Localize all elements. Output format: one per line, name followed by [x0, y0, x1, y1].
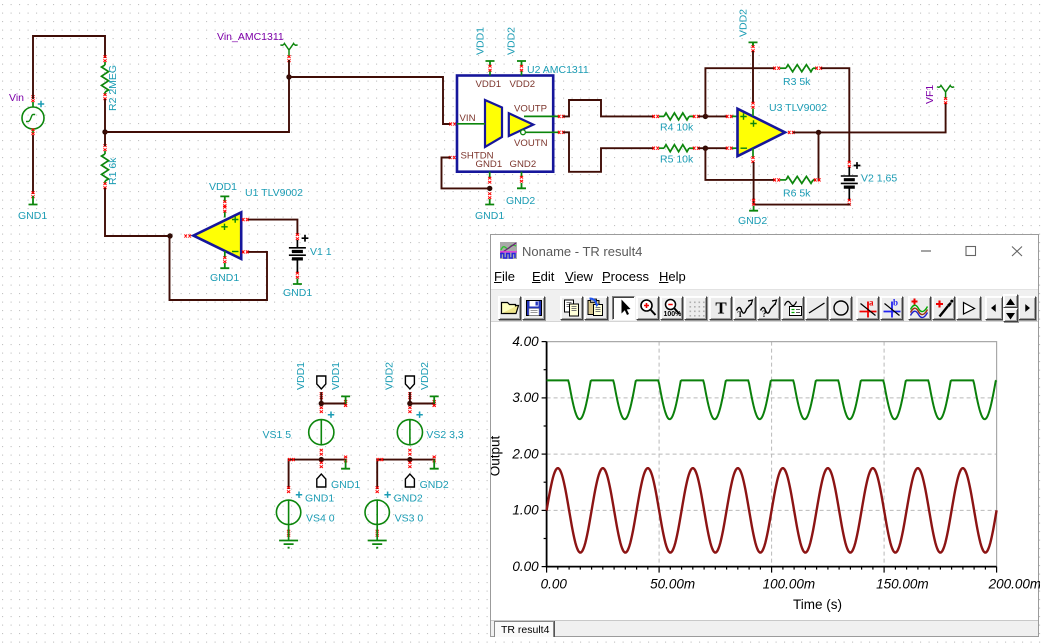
- plot axes: [547, 342, 997, 567]
- pin mark VS3 left: [377, 458, 384, 461]
- wire node to jumper VDD2: [410, 403, 434, 405]
- wire Vin bottom to GND1: [32, 136, 34, 193]
- wire probe to node B: [288, 61, 290, 75]
- pin mark V1 top: [296, 233, 299, 240]
- svg-text:VDD1: VDD1: [209, 181, 237, 193]
- pin mark U2 VDD1: [488, 65, 491, 72]
- pin mark above flag GND2: [408, 461, 411, 468]
- window icon: [500, 242, 517, 264]
- pin mark Vin bottom: [31, 128, 34, 135]
- U1 VDD1 jumper: [220, 196, 229, 202]
- pin mark under flag VDD2: [408, 392, 411, 399]
- svg-text:VDD1: VDD1: [330, 362, 342, 390]
- wire node to VS4: [289, 460, 322, 488]
- svg-text:VS1 5: VS1 5: [263, 429, 292, 441]
- jumper VDD2: [430, 396, 439, 403]
- svg-text:R4 10k: R4 10k: [660, 122, 694, 134]
- node D junction below U2: [487, 186, 492, 191]
- svg-text:VDD2: VDD2: [384, 362, 396, 390]
- svg-text:GND2: GND2: [420, 479, 449, 491]
- node B junction: [286, 74, 291, 79]
- pin mark Vin top: [31, 95, 34, 102]
- voltage source VS2: [397, 420, 422, 445]
- svg-text:Output: Output: [491, 435, 503, 476]
- pin mark U3 GND pin: [751, 156, 754, 163]
- wire VS3 to ground: [376, 525, 378, 541]
- wire node F to U3 minus: [705, 147, 726, 149]
- svg-text:GND2: GND2: [510, 159, 537, 170]
- wire flag to node VDD2: [409, 393, 411, 404]
- ground symbol VS3: [368, 541, 387, 548]
- pin mark VS2 bottom: [408, 449, 411, 456]
- pin mark VS3 top: [376, 486, 379, 493]
- node C junction at U1 output: [167, 233, 172, 238]
- plot gridlines: [547, 509, 997, 511]
- wire node to VS3: [377, 460, 410, 488]
- svg-text:GND1: GND1: [475, 210, 504, 222]
- battery V2 lead bottom: [848, 188, 850, 202]
- pin mark R2 top: [103, 55, 106, 62]
- node F junction: [703, 146, 708, 151]
- pin mark R3 right: [815, 67, 822, 70]
- minimize button: [916, 241, 976, 261]
- pin mark jumper VDD2: [433, 400, 436, 407]
- wire node E to U3 plus: [705, 115, 726, 117]
- pin mark U3 +in: [726, 115, 733, 118]
- pin mark U2 SHTDN: [449, 156, 456, 159]
- pin mark under flag VDD1: [320, 392, 323, 399]
- IC U2 AMC1311 box: [457, 76, 553, 172]
- svg-text:1.00: 1.00: [512, 503, 539, 518]
- wire node to jumper VDD1: [321, 403, 345, 405]
- svg-text:V2 1,65: V2 1,65: [861, 173, 897, 185]
- wire R4 to node E: [699, 115, 705, 117]
- probe Vin_AMC1311: [280, 44, 297, 57]
- plus sign V2: [854, 162, 861, 169]
- wire R1 to U1 node: [104, 135, 106, 145]
- battery V2: [841, 176, 858, 183]
- pin flag GND1: [317, 474, 326, 487]
- pin mark jumper GND1: [344, 456, 347, 463]
- jumper VDD1: [341, 396, 350, 403]
- pin mark above flag GND1: [320, 461, 323, 468]
- pin mark U2 VDD2: [520, 65, 523, 72]
- U1 plus input mark: [232, 216, 238, 222]
- voltage generator Vin: [22, 107, 44, 129]
- svg-text:50.00m: 50.00m: [650, 577, 695, 592]
- pin mark U1 -in: [242, 250, 249, 253]
- svg-text:VDD2: VDD2: [510, 79, 536, 90]
- U3 plus stub: [732, 115, 738, 117]
- svg-text:Vin: Vin: [9, 92, 24, 104]
- svg-text:3.00: 3.00: [512, 390, 539, 405]
- svg-text:GND1: GND1: [476, 159, 503, 170]
- wire output to R6 vertical: [818, 132, 820, 180]
- pin mark V2 top: [848, 161, 851, 168]
- pin mark U2 VIN: [449, 122, 456, 125]
- U3 plus input mark: [740, 113, 746, 119]
- svg-text:VS4 0: VS4 0: [306, 513, 335, 525]
- pin mark V1 bottom: [296, 272, 299, 279]
- svg-text:VDD1: VDD1: [476, 79, 502, 90]
- pin mark VF1: [944, 97, 947, 104]
- U2 VDD2 jumper: [517, 61, 526, 66]
- U2 GND1 jumper: [485, 199, 494, 205]
- svg-text:GND1: GND1: [331, 479, 360, 491]
- voltage source VS4: [276, 500, 300, 524]
- node junction VDD1: [319, 401, 324, 406]
- U2 VOUTN pin wire: [526, 131, 559, 133]
- svg-text:V1 1: V1 1: [310, 246, 332, 258]
- plus sign VS1: [328, 412, 334, 418]
- pin mark R5 left: [652, 147, 659, 150]
- U1 GND1 jumper: [220, 263, 229, 268]
- U3 GND stub: [752, 149, 754, 158]
- svg-text:VDD1: VDD1: [295, 362, 307, 390]
- pin mark VS4 bottom: [287, 530, 290, 537]
- pin mark R2 bottom: [103, 93, 106, 100]
- svg-text:4.00: 4.00: [512, 334, 539, 349]
- U3 offset plus mark: [750, 120, 756, 126]
- wire VOUTP to R4: [564, 100, 653, 116]
- pin mark U3 -in: [726, 147, 733, 150]
- svg-text:VS3 0: VS3 0: [395, 513, 424, 525]
- pin mark R1 bottom: [103, 182, 106, 189]
- wire node E up to R3: [705, 68, 774, 116]
- svg-text:VDD2: VDD2: [738, 9, 750, 37]
- svg-text:R3 5k: R3 5k: [783, 76, 811, 88]
- svg-text:200.00m: 200.00m: [988, 577, 1040, 592]
- svg-text:Vin_AMC1311: Vin_AMC1311: [217, 31, 284, 43]
- svg-text:U1 TLV9002: U1 TLV9002: [245, 187, 303, 199]
- svg-text:R2 2MEG: R2 2MEG: [107, 65, 119, 111]
- pin mark U2 GND2: [520, 176, 523, 183]
- plus sign Vin: [38, 101, 44, 107]
- svg-text:150.00m: 150.00m: [876, 577, 929, 592]
- pin mark R6 right: [814, 178, 821, 181]
- wire U1 -in feedback: [170, 238, 268, 300]
- node E junction: [703, 114, 708, 119]
- svg-text:GND2: GND2: [738, 215, 767, 227]
- pin mark U3 VDD pin: [751, 102, 754, 109]
- pin mark probe Vin_AMC1311: [287, 55, 290, 62]
- plus sign VS2: [416, 412, 422, 418]
- pin mark GND2 junction: [752, 199, 755, 206]
- svg-text:VIN: VIN: [460, 113, 476, 124]
- U2 VDD1 jumper: [486, 61, 495, 66]
- wire node A to riser: [105, 79, 289, 132]
- U3 VDD stub: [752, 109, 754, 117]
- voltage source VS3: [365, 500, 389, 524]
- svg-text:GND1: GND1: [305, 493, 334, 505]
- GND2 jumper under U3: [749, 206, 758, 211]
- wire Vin top to R2: [33, 36, 105, 98]
- wire node to jumper GND1: [321, 459, 345, 461]
- svg-text:100.00m: 100.00m: [763, 577, 816, 592]
- U1 offset plus mark: [221, 224, 227, 230]
- svg-text:VF1: VF1: [924, 85, 936, 104]
- pin mark VS2 top: [408, 406, 411, 413]
- pin mark R1 top: [103, 144, 106, 151]
- resistor R1: [104, 151, 106, 154]
- battery V1: [289, 248, 306, 255]
- pin mark R4 left: [652, 115, 659, 118]
- U2 GND1 stub: [489, 172, 491, 178]
- pin mark U1 +in: [242, 218, 249, 221]
- svg-text:0.00: 0.00: [512, 559, 539, 574]
- svg-text:GND2: GND2: [506, 195, 535, 207]
- wire R2 to node A: [104, 100, 106, 132]
- pin mark R4 right: [693, 115, 700, 118]
- wire U3 output to VF1: [794, 104, 946, 132]
- wire U3 VDD2: [752, 52, 754, 102]
- wire flag to node VDD1: [320, 393, 322, 404]
- wire VOUTN to R5: [564, 132, 653, 172]
- U2 inverting bubble: [521, 130, 526, 135]
- U3 minus stub: [732, 147, 738, 149]
- svg-text:0.00: 0.00: [541, 577, 568, 592]
- node junction VDD2: [407, 401, 412, 406]
- red waveform Output: [547, 468, 997, 552]
- wire R5 to node F: [699, 147, 705, 149]
- pin mark R5 right: [693, 147, 700, 150]
- battery V1 lead bottom: [296, 259, 298, 273]
- pin mark VS3 bottom: [376, 530, 379, 537]
- svg-text:R6 5k: R6 5k: [783, 188, 811, 200]
- node F to R6 wire: [705, 148, 774, 180]
- svg-text:VDD1: VDD1: [475, 27, 487, 55]
- wire node to jumper GND2: [410, 459, 434, 461]
- U3 VDD2 jumper: [749, 42, 758, 47]
- wire U2 SHTDN to GND1 node: [442, 158, 489, 189]
- U2 GND2 jumper: [517, 183, 526, 188]
- pin mark below node D: [488, 192, 491, 199]
- pin mark U1 output: [184, 234, 191, 237]
- close button: [1007, 241, 1027, 261]
- V1 GND1 jumper: [293, 279, 302, 285]
- svg-text:GND1: GND1: [283, 287, 312, 299]
- jumper GND1: [341, 460, 350, 469]
- pin mark VS4 top: [287, 486, 290, 493]
- pin mark jumper GND2: [433, 456, 436, 463]
- plus sign VS3: [384, 492, 390, 498]
- maximize button: [961, 241, 981, 261]
- wire V2 bottom to GND2: [754, 204, 850, 206]
- resistor R6: [780, 179, 786, 181]
- ground symbol VS4: [279, 541, 298, 548]
- svg-text:U2 AMC1311: U2 AMC1311: [527, 64, 589, 76]
- node junction lower GND1: [319, 457, 324, 462]
- wire U3 GND down: [753, 163, 755, 205]
- svg-text:VS2 3,3: VS2 3,3: [426, 429, 464, 441]
- wire node B to U2 VIN: [289, 77, 450, 124]
- U3 minus input mark: [741, 147, 748, 149]
- U1 minus input mark: [232, 251, 239, 253]
- U1 GND1 stub: [224, 251, 226, 258]
- svg-text:GND2: GND2: [394, 493, 423, 505]
- svg-text:VOUTP: VOUTP: [514, 104, 547, 115]
- ground jumper GND1 at Vin: [29, 198, 38, 205]
- resistor R2: [104, 62, 106, 65]
- plus sign VS4: [296, 492, 302, 498]
- plus sign V1: [302, 235, 309, 242]
- wire R3 to V2 plus: [822, 68, 849, 161]
- pin mark VS4 left: [288, 458, 295, 461]
- TR result window: [490, 234, 1039, 637]
- svg-text:VDD2: VDD2: [419, 362, 431, 390]
- battery V2 lead top: [848, 167, 850, 176]
- pin mark R6 left: [773, 178, 780, 181]
- svg-text:R5 10k: R5 10k: [660, 154, 694, 166]
- pin mark U2 GND1: [488, 177, 491, 184]
- U2 output stage triangle: [509, 113, 534, 136]
- svg-text:2.00: 2.00: [511, 446, 539, 461]
- voltage source VS1: [309, 420, 334, 445]
- svg-text:VOUTN: VOUTN: [514, 138, 548, 149]
- pin mark VS1 bottom: [320, 449, 323, 456]
- resistor R4: [659, 115, 664, 117]
- svg-text:VDD2: VDD2: [506, 27, 518, 55]
- pin marks U1 VDD1: [223, 200, 226, 207]
- pin mark jumper VDD1: [344, 400, 347, 407]
- resistor R3: [780, 67, 786, 69]
- pin mark VOUTP: [558, 115, 565, 118]
- U2 VOUTP pin wire: [524, 115, 559, 117]
- pin flag VDD2 top: [405, 376, 414, 389]
- op-amp U3 triangle: [738, 109, 786, 157]
- U2 input stage trapezoid: [485, 100, 502, 147]
- pin mark R3 left: [773, 67, 780, 70]
- wire U1 +in to V1: [249, 220, 297, 234]
- pin mark U3 VDD2 jumper: [751, 45, 754, 52]
- svg-text:Time (s): Time (s): [793, 597, 842, 612]
- pin mark Vin gnd: [31, 191, 34, 198]
- probe VF1: [937, 86, 954, 99]
- pin mark VOUTN: [558, 131, 565, 134]
- node A junction: [102, 129, 107, 134]
- U2 VIN pin wire: [457, 123, 485, 125]
- pin mark V2 bottom: [848, 199, 851, 206]
- battery V1 lead top: [296, 240, 298, 248]
- node junction lower GND2: [407, 457, 412, 462]
- wire VS4 to ground: [288, 525, 290, 541]
- pin flag VDD1 top: [317, 376, 326, 389]
- U2 GND2 stub: [521, 172, 523, 177]
- svg-text:R1 6k: R1 6k: [107, 157, 119, 185]
- pin mark U3 output: [788, 131, 795, 134]
- jumper GND2: [430, 460, 439, 469]
- resistor R5: [659, 147, 664, 149]
- svg-text:GND1: GND1: [18, 210, 47, 222]
- pin mark U1 GND1: [223, 256, 226, 263]
- pin mark VS1 top: [320, 406, 323, 413]
- svg-text:U3 TLV9002: U3 TLV9002: [769, 102, 827, 114]
- svg-text:GND1: GND1: [210, 272, 239, 284]
- green waveform VF1: [547, 380, 997, 419]
- op-amp U1 triangle: [193, 212, 241, 259]
- pin flag GND2: [405, 474, 414, 487]
- node G junction at output: [816, 130, 821, 135]
